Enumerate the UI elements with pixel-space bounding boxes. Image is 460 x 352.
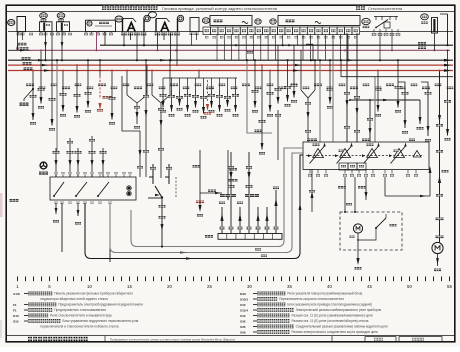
wire under unit left — [311, 170, 313, 213]
bus junction dots upper — [143, 44, 145, 46]
left edge scan artifact — [0, 193, 3, 217]
left lead of purple bus — [8, 49, 30, 51]
svg-text:X11/4: X11/4 — [240, 308, 248, 312]
pin ticks under boxes — [18, 32, 20, 33]
svg-text:Реле стеклоочистителя и омыват: Реле стеклоочистителя и омывателя фар — [50, 314, 112, 318]
wire field center cluster header — [163, 77, 237, 79]
bus labels left edge — [18, 43, 27, 46]
wire drop 294 — [293, 45, 295, 97]
wire strip drops — [216, 35, 218, 61]
wire switch drop — [340, 35, 342, 61]
wire red dashed drop center — [207, 80, 209, 101]
feed wire X11 pin4 — [248, 152, 250, 234]
wire drop A1 with slant branch — [32, 71, 34, 121]
feed wire X11 pin2 — [230, 152, 232, 234]
svg-text:Галовка привода: уклонный конт: Галовка привода: уклонный контур заднего… — [162, 6, 277, 11]
control module A1 box — [86, 20, 116, 31]
svg-text:Разъем электрического соединит: Разъем электрического соединителя жгута … — [291, 330, 378, 334]
wire drop B0 — [87, 60, 89, 107]
page box 1 — [365, 337, 396, 342]
bus line red 15R — [8, 70, 453, 72]
svg-text:S10: S10 — [13, 319, 19, 323]
corner wire right of strip — [312, 44, 314, 60]
wire fork pair 2 — [151, 71, 153, 96]
bus line red 15 — [8, 64, 453, 66]
svg-text:Блок указания реле привода сте: Блок указания реле привода стеклоподъемн… — [287, 303, 372, 307]
mercedes connection symbol — [40, 162, 47, 169]
wire fuse2 drop — [61, 32, 63, 61]
cell drops right group — [302, 35, 304, 61]
bus end arrows right edge — [444, 59, 451, 62]
svg-text:переключателя и стеклоочистите: переключателя и стеклоочистителя лобовог… — [41, 325, 119, 329]
svg-text:Блок управления подрулевого пе: Блок управления подрулевого переключател… — [62, 319, 138, 323]
wire loop right — [385, 173, 430, 196]
wire field center cluster — [162, 78, 164, 90]
wire drop 398 — [397, 60, 399, 107]
rear wiper motor circle — [353, 224, 362, 233]
wire lamp drop — [17, 32, 19, 51]
strip ellipse labels pair — [255, 19, 261, 24]
wiper arm symbol 3 — [367, 149, 378, 158]
arrow marks on red buses — [42, 64, 48, 66]
svg-text:индикатора габаритных огней за: индикатора габаритных огней заднего стек… — [41, 297, 109, 301]
relay M6/2 frame with motor symbol — [115, 16, 123, 22]
wire drop A3 — [40, 50, 42, 103]
feed wire X11 pin7 — [275, 190, 277, 234]
connector strip right box — [278, 16, 360, 26]
pin labels under relay M6/2 — [121, 32, 127, 35]
wire long gray to switchbox — [56, 60, 58, 152]
wire with corner to DB — [200, 150, 222, 193]
wire drop 330 — [329, 60, 331, 103]
title separator line — [6, 10, 455, 12]
hook corner 428 — [421, 82, 428, 88]
svg-text:Электрический разъем комбиниро: Электрический разъем комбинированного ре… — [296, 308, 382, 312]
svg-text:F1: F1 — [13, 303, 17, 307]
wire horizontal link right — [350, 99, 420, 101]
bottom bar top line — [6, 335, 455, 337]
switch blades S10 — [54, 182, 64, 196]
wires below switchbox 5 — [109, 203, 111, 262]
wire drop 30F continue — [277, 45, 279, 103]
wire right edge top — [447, 14, 449, 45]
pin labels above X11 strip — [220, 227, 225, 230]
wire relay drops right — [379, 33, 381, 61]
wire gray near motorbox — [319, 60, 321, 142]
wires below switchbox 1 — [55, 203, 57, 214]
fuse label ellipse F32 — [421, 14, 429, 20]
relay K output wire — [161, 198, 163, 212]
wire labels under unit — [338, 186, 346, 189]
wire drop 287 — [287, 60, 289, 101]
relay K changeover contact — [152, 164, 154, 177]
top rail bus line right — [360, 31, 453, 33]
svg-text:25: 25 — [207, 284, 212, 289]
bus line 30 black upper — [100, 44, 453, 46]
wire drop C4 — [145, 60, 147, 177]
bus line purple circuit 15 — [30, 49, 450, 51]
bus line 30 black lower — [8, 59, 453, 61]
labels above wiper arms — [313, 144, 320, 146]
rear motor circle right — [432, 242, 443, 253]
labels 30Z right — [418, 42, 426, 45]
svg-text:55: 55 — [447, 284, 452, 289]
wire drop 255 — [254, 60, 256, 107]
connector strip X11/4 — [218, 234, 282, 240]
label ellipse S4 — [202, 18, 209, 24]
pin labels under relay — [372, 33, 377, 36]
wire gray mid with corner — [247, 60, 272, 133]
gray loop 1 around strip — [131, 148, 303, 247]
pin labels under relay M6/4 — [155, 32, 161, 35]
wire feed 357 into wiper unit — [356, 33, 358, 142]
wire right column long — [439, 71, 441, 243]
wire drop B2 — [76, 65, 78, 112]
bottom bar divider 1 — [104, 336, 106, 342]
lamp H11 — [8, 20, 15, 26]
left edge label X10 — [10, 199, 19, 202]
svg-text:10: 10 — [87, 284, 92, 289]
wire drop A2 — [51, 32, 53, 126]
wire gauge wide labels above strip — [220, 194, 236, 197]
switch pins top ticks — [55, 175, 57, 177]
run labels right — [255, 248, 261, 250]
svg-text:X12: X12 — [240, 314, 246, 318]
svg-text:X58: X58 — [240, 330, 246, 334]
svg-text:F1: F1 — [13, 308, 17, 312]
svg-text:Стеклоочистители: Стеклоочистители — [368, 6, 402, 11]
wire right edge drop — [447, 50, 449, 135]
svg-text:Переключатель скорости стеклоо: Переключатель скорости стеклоочистителя — [279, 297, 344, 301]
switch inside relay box — [376, 218, 386, 228]
gray long wire right 2 — [374, 77, 376, 142]
wire lamp lower stub — [17, 45, 19, 50]
right column labels — [436, 124, 443, 127]
svg-text:35: 35 — [287, 284, 292, 289]
pin cell boxes inside unit — [339, 163, 348, 170]
svg-text:X35: X35 — [240, 325, 246, 329]
wire below right motor — [437, 254, 439, 266]
page box 2 — [399, 337, 442, 342]
wire relay drop long — [161, 212, 163, 247]
relay box M6 dashed — [340, 212, 402, 250]
svg-text:Разъем сек. 11 (Е) реле (отопл: Разъем сек. 11 (Е) реле (отопление/обогр… — [291, 319, 368, 323]
gray long wire right 1 — [332, 60, 334, 142]
wire module purple drop — [96, 32, 98, 51]
svg-text:S10/1: S10/1 — [240, 297, 248, 301]
svg-text:X10: X10 — [240, 303, 246, 307]
svg-text:30: 30 — [247, 284, 252, 289]
svg-text:K30: K30 — [240, 292, 246, 296]
wires up arrows above X11 strip — [221, 207, 223, 234]
junction dots motor area — [344, 211, 346, 213]
wire fuse33 drop — [434, 33, 436, 50]
arrow marks on black bus — [38, 59, 45, 61]
svg-text:20: 20 — [167, 284, 172, 289]
wire code labels band — [26, 84, 34, 87]
wire box pin2 drop — [22, 33, 24, 40]
title text right — [356, 6, 360, 10]
svg-text:K10: K10 — [13, 314, 19, 318]
wire drop 370 into unit — [369, 100, 371, 142]
wiper arm symbol 5 small — [413, 151, 421, 158]
potentiometer dashed track — [306, 155, 424, 157]
relay M6/4 frame with motor symbol — [149, 12, 157, 18]
wire module drops — [104, 32, 106, 46]
connector box small — [190, 18, 199, 32]
svg-text:Соединительный разъем (заземле: Соединительный разъем (заземление) кабин… — [296, 325, 388, 329]
hook corner 405 — [398, 82, 405, 88]
wire drop B1 — [62, 71, 64, 112]
svg-text:Разъем сек. 11 (Е) реле (зажиг: Разъем сек. 11 (Е) реле (зажигание/накал… — [291, 314, 372, 318]
svg-text:Предохранитель стеклоомывателя: Предохранитель стеклоомывателя — [54, 308, 106, 312]
svg-text:50: 50 — [407, 284, 412, 289]
bottom bar divider 2 — [331, 336, 333, 342]
wiper arm symbol 1 — [313, 149, 324, 158]
switch pins bottom labels — [55, 202, 58, 204]
wires from wiper unit down — [344, 177, 346, 212]
svg-text:Приводимые электрические схемы: Приводимые электрические схемы соответст… — [110, 338, 235, 342]
pin label row under boxes left — [17, 33, 21, 36]
wires feed mid left — [69, 138, 71, 148]
top rail bus line left — [8, 31, 203, 33]
fuse F23 with label — [57, 13, 65, 19]
relay ellipse F5 — [362, 18, 370, 24]
wires below switchbox 4 — [84, 203, 86, 252]
svg-text:X26: X26 — [240, 319, 246, 323]
wire fork pair 1 — [126, 71, 128, 96]
connector box X1 — [17, 17, 26, 32]
wire drop right of relay — [227, 150, 229, 200]
svg-text:40: 40 — [327, 284, 332, 289]
ruler tick marks — [17, 277, 18, 282]
pin numbers under cells — [205, 36, 208, 38]
title text center — [102, 5, 106, 10]
wire feed 347 into wiper unit — [346, 33, 348, 142]
fuse F20 with label — [40, 13, 48, 19]
wire drop 270 — [269, 71, 271, 112]
wiper arm symbol 2 — [340, 149, 351, 158]
wires below switchbox 2 — [61, 203, 63, 252]
wire drop 428 — [427, 88, 429, 136]
wire drop long center — [261, 65, 263, 149]
purple bus junction dots — [95, 49, 97, 51]
wire drop 405 — [404, 88, 406, 128]
wires below switchbox 3 — [77, 203, 79, 216]
relay internal link wire — [358, 236, 376, 240]
fuse F33 vertical — [432, 18, 438, 34]
wire small box drops — [191, 33, 193, 45]
svg-text:Реле указателя поворота (комби: Реле указателя поворота (комбинированный… — [287, 292, 362, 296]
svg-text:45: 45 — [367, 284, 372, 289]
wires relay M64 drops — [157, 33, 159, 50]
relay contact drawing top right — [374, 15, 398, 17]
switch assembly S10 box — [50, 177, 136, 200]
wire below motor — [357, 250, 359, 263]
contact dots pair — [127, 186, 130, 189]
svg-text:Панель указания контрольных пр: Панель указания контрольных приборов габ… — [54, 292, 133, 296]
wiper unit pin row — [309, 170, 311, 174]
wiper unit outer box — [303, 142, 429, 170]
connector strip left box — [210, 16, 252, 26]
pin cell row under strips — [203, 27, 210, 35]
bottom bar left cell bold text — [28, 337, 32, 341]
wire drop 378 — [377, 71, 379, 112]
wires into switchbox top — [55, 148, 57, 177]
gray loop 2 around strip — [110, 153, 303, 253]
wire fuse1 drop — [45, 32, 47, 61]
wiper arm symbol 4 — [394, 149, 405, 158]
wire fork near motorbox — [300, 50, 302, 90]
wire corner into switch area — [122, 76, 140, 177]
black loop 3 around strip — [85, 155, 303, 259]
component box corner right mid — [341, 60, 453, 76]
svg-text:A1/8: A1/8 — [13, 292, 20, 296]
wire drop C1 — [111, 71, 113, 120]
svg-text:15: 15 — [127, 284, 132, 289]
wires relay M62 drops — [123, 33, 125, 45]
svg-text:Предохранитель электрооборудов: Предохранитель электрооборудования перед… — [58, 303, 143, 307]
wire red dashed drop — [99, 76, 101, 99]
labels above wiper unit — [307, 139, 317, 142]
